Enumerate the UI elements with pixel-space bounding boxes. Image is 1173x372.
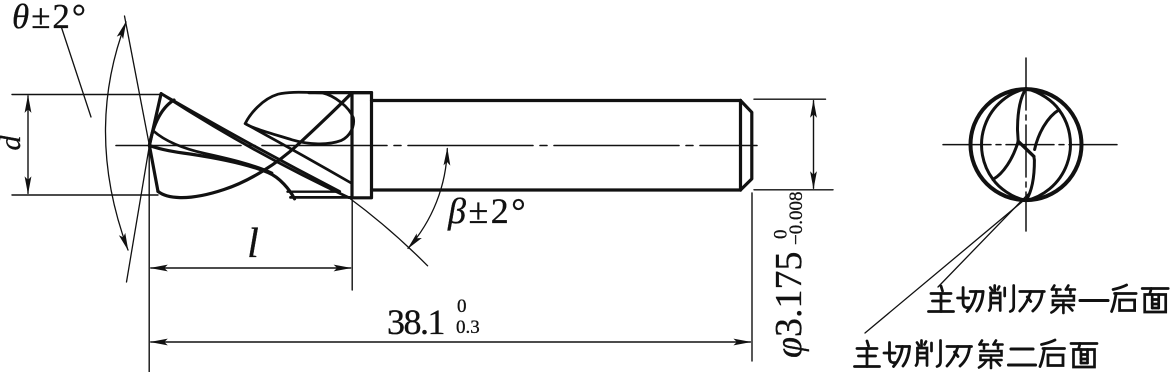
left land arc xyxy=(982,89,1026,180)
svg-text:d: d xyxy=(0,135,27,151)
svg-text:0: 0 xyxy=(457,296,467,317)
d top extension line xyxy=(12,94,163,96)
dimension l line xyxy=(151,267,351,269)
svg-text:β±2°: β±2° xyxy=(447,191,528,231)
end view horizontal centerline xyxy=(943,144,1120,146)
phi top extension line xyxy=(754,98,826,100)
beta angle line xyxy=(349,198,428,266)
right blob edge xyxy=(1026,156,1034,200)
label: 主切削刃第一后面 xyxy=(929,285,1169,313)
shank bottom xyxy=(372,188,741,191)
dimension phi arrows xyxy=(813,101,815,189)
theta leader line xyxy=(61,26,91,117)
right hook curve xyxy=(1035,110,1059,150)
shank right end with chamfer xyxy=(741,101,752,191)
right heel curve xyxy=(1026,89,1059,110)
end view xyxy=(865,58,1120,333)
upper strip line xyxy=(288,190,340,192)
l left extension line (from tip) xyxy=(148,146,150,372)
bottom outline and rising helix edge xyxy=(158,93,352,198)
svg-text:φ3.175: φ3.175 xyxy=(768,251,810,358)
X curve from petal xyxy=(154,131,273,173)
top flat line xyxy=(309,91,372,94)
l right extension line xyxy=(351,200,353,290)
ear trailing edge line xyxy=(245,124,352,184)
svg-text:−0.008: −0.008 xyxy=(786,192,807,245)
theta lower angle line xyxy=(127,146,150,283)
flute band line B2 xyxy=(161,94,340,192)
upper petal xyxy=(149,100,174,146)
label: 主切削刃第二后面 xyxy=(855,340,1098,368)
theta upper angle line xyxy=(125,16,150,146)
dimension d arrows xyxy=(27,96,29,194)
leader line B xyxy=(865,201,1023,333)
collar xyxy=(352,93,372,198)
drill outline (thick) xyxy=(149,92,751,199)
beta dimension arc xyxy=(408,149,447,249)
S flute curve from tip xyxy=(149,146,294,199)
38.1 right extension line xyxy=(751,193,753,361)
label phi 3.175 xyxy=(768,192,810,358)
end view vertical centerline xyxy=(1025,58,1027,231)
centerline side view xyxy=(116,145,757,147)
svg-text:0.3: 0.3 xyxy=(456,317,480,338)
outer circle xyxy=(971,89,1082,200)
svg-text:38.1: 38.1 xyxy=(387,302,444,342)
flute band line B1 xyxy=(161,94,349,198)
left heel curve xyxy=(993,179,1026,200)
chisel edge xyxy=(1018,141,1034,156)
shank top xyxy=(372,99,741,102)
svg-text:θ±2°: θ±2° xyxy=(12,0,88,36)
left blob edge xyxy=(1018,89,1027,142)
right land arc xyxy=(1026,110,1070,201)
dimension 38.1 line xyxy=(151,341,751,343)
d bottom extension line xyxy=(12,194,158,196)
tip upper edge xyxy=(149,94,161,146)
flute teardrop ear xyxy=(245,92,353,144)
tip lower edge xyxy=(149,146,158,192)
leader line A xyxy=(938,191,1031,287)
lower strip line xyxy=(291,196,353,199)
phi bottom extension line xyxy=(754,189,833,191)
left hook curve xyxy=(993,141,1018,179)
shank chamfer start edge xyxy=(739,101,742,191)
svg-text:l: l xyxy=(247,221,259,267)
theta dimension arc xyxy=(105,22,128,250)
